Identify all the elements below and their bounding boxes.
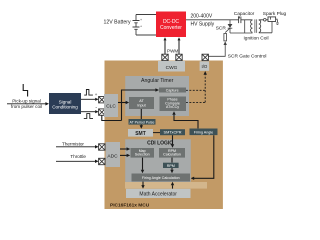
pin PWM2 bbox=[176, 54, 182, 60]
svg-text:from pulser coil: from pulser coil bbox=[11, 104, 42, 109]
spark plug bbox=[268, 17, 276, 22]
svg-text:CDI LOGIC: CDI LOGIC bbox=[147, 141, 173, 147]
phase compare block bbox=[160, 97, 187, 112]
battery B1 bbox=[133, 15, 140, 36]
spark plug connector bbox=[264, 19, 267, 22]
svg-text:Capacitor: Capacitor bbox=[234, 11, 255, 17]
CLC block bbox=[104, 94, 118, 117]
DC-DC converter U1 bbox=[156, 12, 186, 38]
map selection block bbox=[131, 148, 155, 158]
RPM tag to firing angle calc wire bbox=[171, 168, 173, 170]
wire firing angle calc to math accelerator bbox=[142, 182, 144, 186]
svg-text:Firing Angle Calculation: Firing Angle Calculation bbox=[142, 176, 180, 180]
svg-text:ATxCCy: ATxCCy bbox=[166, 105, 179, 109]
svg-text:AT Period Pulse: AT Period Pulse bbox=[130, 120, 155, 124]
svg-text:Thermistor: Thermistor bbox=[62, 141, 84, 146]
svg-text:Spark Plug: Spark Plug bbox=[263, 11, 287, 17]
RPM calculation block bbox=[159, 148, 185, 158]
RPM calc to RPM tag wire bbox=[171, 158, 173, 163]
svg-text:RPM: RPM bbox=[167, 164, 175, 168]
CDI logic block bbox=[125, 139, 191, 185]
AT period pulse tag bbox=[129, 119, 156, 125]
math accelerator block bbox=[126, 189, 191, 198]
svg-text:CWG: CWG bbox=[166, 65, 178, 71]
firing angle calculation block bbox=[132, 174, 191, 182]
SCR Q1 bbox=[225, 20, 232, 33]
svg-text:+: + bbox=[140, 18, 142, 22]
MCU body PIC16F161x bbox=[105, 61, 223, 210]
svg-text:Calculation: Calculation bbox=[163, 153, 181, 157]
svg-text:Conditioning: Conditioning bbox=[52, 105, 78, 110]
svg-text:+: + bbox=[140, 24, 142, 28]
RPM tag bbox=[163, 163, 179, 168]
wire battery to DC-DC bbox=[136, 15, 156, 36]
svg-text:12V Battery: 12V Battery bbox=[103, 20, 131, 26]
svg-text:HV Supply: HV Supply bbox=[191, 22, 215, 28]
AT input block bbox=[129, 97, 154, 109]
svg-text:Input: Input bbox=[137, 103, 145, 107]
primary loop wire bbox=[230, 20, 253, 33]
svg-text:+: + bbox=[95, 92, 98, 97]
AT period pulse wire bbox=[140, 109, 142, 125]
svg-text:I/O: I/O bbox=[201, 64, 207, 69]
svg-text:Angular Timer: Angular Timer bbox=[141, 78, 174, 84]
pickup wire bbox=[7, 103, 46, 105]
wire junction to capture bbox=[122, 90, 156, 121]
svg-text:200-400V: 200-400V bbox=[191, 13, 213, 19]
svg-text:SCR Gate Control: SCR Gate Control bbox=[228, 54, 267, 60]
I/O block bbox=[200, 61, 210, 71]
wire conditioned output minus bbox=[81, 111, 95, 113]
wire ADC to map selection ch1 bbox=[120, 148, 127, 150]
math accelerator highlight band bbox=[125, 182, 207, 189]
svg-text:SCR: SCR bbox=[216, 25, 227, 31]
wire SMTxCPR to RPM calculation bbox=[172, 135, 174, 144]
pin CLC- bbox=[99, 109, 105, 115]
svg-text:CLC: CLC bbox=[106, 103, 116, 109]
SMT block bbox=[128, 129, 153, 137]
firing angle wire to calculation bbox=[194, 135, 214, 178]
HV supply wire bbox=[186, 19, 253, 21]
dashed capture to IO bbox=[186, 89, 205, 91]
firing angle tag bbox=[190, 129, 218, 136]
pin AN0 bbox=[99, 144, 105, 150]
svg-text:ADC: ADC bbox=[107, 153, 118, 159]
wire thermistor to pin bbox=[56, 146, 95, 148]
ADC block bbox=[106, 142, 120, 167]
pickup pulse icon bbox=[23, 84, 27, 97]
secondary loop wire bbox=[259, 20, 272, 33]
svg-text:Pick-up signal: Pick-up signal bbox=[12, 98, 41, 103]
svg-text:SMTxCPR: SMTxCPR bbox=[164, 131, 182, 135]
SMT to SMTxCPR wire bbox=[153, 132, 160, 134]
signal conditioning block bbox=[49, 93, 81, 114]
capture block bbox=[159, 88, 186, 93]
capacitor C1 bbox=[239, 17, 241, 24]
svg-text:-: - bbox=[95, 105, 97, 111]
SMTxCPR tag bbox=[160, 129, 185, 135]
svg-text:PWM: PWM bbox=[167, 49, 178, 54]
svg-text:Throttle: Throttle bbox=[70, 154, 86, 159]
gate resistor R1 bbox=[224, 34, 227, 41]
capacitor pointer arrow bbox=[238, 16, 240, 18]
svg-text:SMT: SMT bbox=[135, 131, 146, 137]
pin AN1 bbox=[99, 158, 105, 164]
SCR gate control wire bbox=[208, 45, 225, 57]
pin PWM1 bbox=[162, 54, 168, 60]
svg-text:Firing Angle: Firing Angle bbox=[194, 130, 213, 134]
svg-text:Selection: Selection bbox=[135, 153, 150, 157]
map selection to firing angle calc wire bbox=[142, 158, 144, 170]
svg-text:Math Accelerator: Math Accelerator bbox=[139, 192, 177, 198]
pulse out bottom icon bbox=[84, 114, 93, 119]
svg-text:Ignition Coil: Ignition Coil bbox=[243, 36, 268, 42]
wire pin CLC- to junction bbox=[102, 115, 122, 120]
angular timer block bbox=[125, 76, 189, 116]
pin IO bbox=[202, 54, 208, 60]
wire CLC to AT input bbox=[118, 102, 126, 104]
wire PWM2 to DC-DC bbox=[178, 40, 180, 54]
firing angle feedback wire to phase compare bbox=[174, 115, 198, 129]
CWG block bbox=[158, 61, 185, 72]
wire throttle to pin bbox=[56, 160, 95, 162]
wire PWM1 to DC-DC bbox=[164, 40, 166, 54]
ignition coil T1 bbox=[251, 19, 261, 33]
dashed phase compare to IO bbox=[186, 75, 205, 103]
svg-text:PIC16F161x MCU: PIC16F161x MCU bbox=[110, 203, 150, 209]
pin CLC+ bbox=[99, 97, 105, 103]
wire math accelerator to firing angle calc bbox=[172, 185, 174, 189]
svg-text:Converter: Converter bbox=[160, 25, 182, 31]
pulse out top icon bbox=[84, 90, 93, 96]
svg-text:Capture: Capture bbox=[166, 88, 179, 92]
wire conditioned output plus bbox=[81, 98, 95, 100]
wire ADC to map selection ch2 bbox=[120, 154, 127, 156]
